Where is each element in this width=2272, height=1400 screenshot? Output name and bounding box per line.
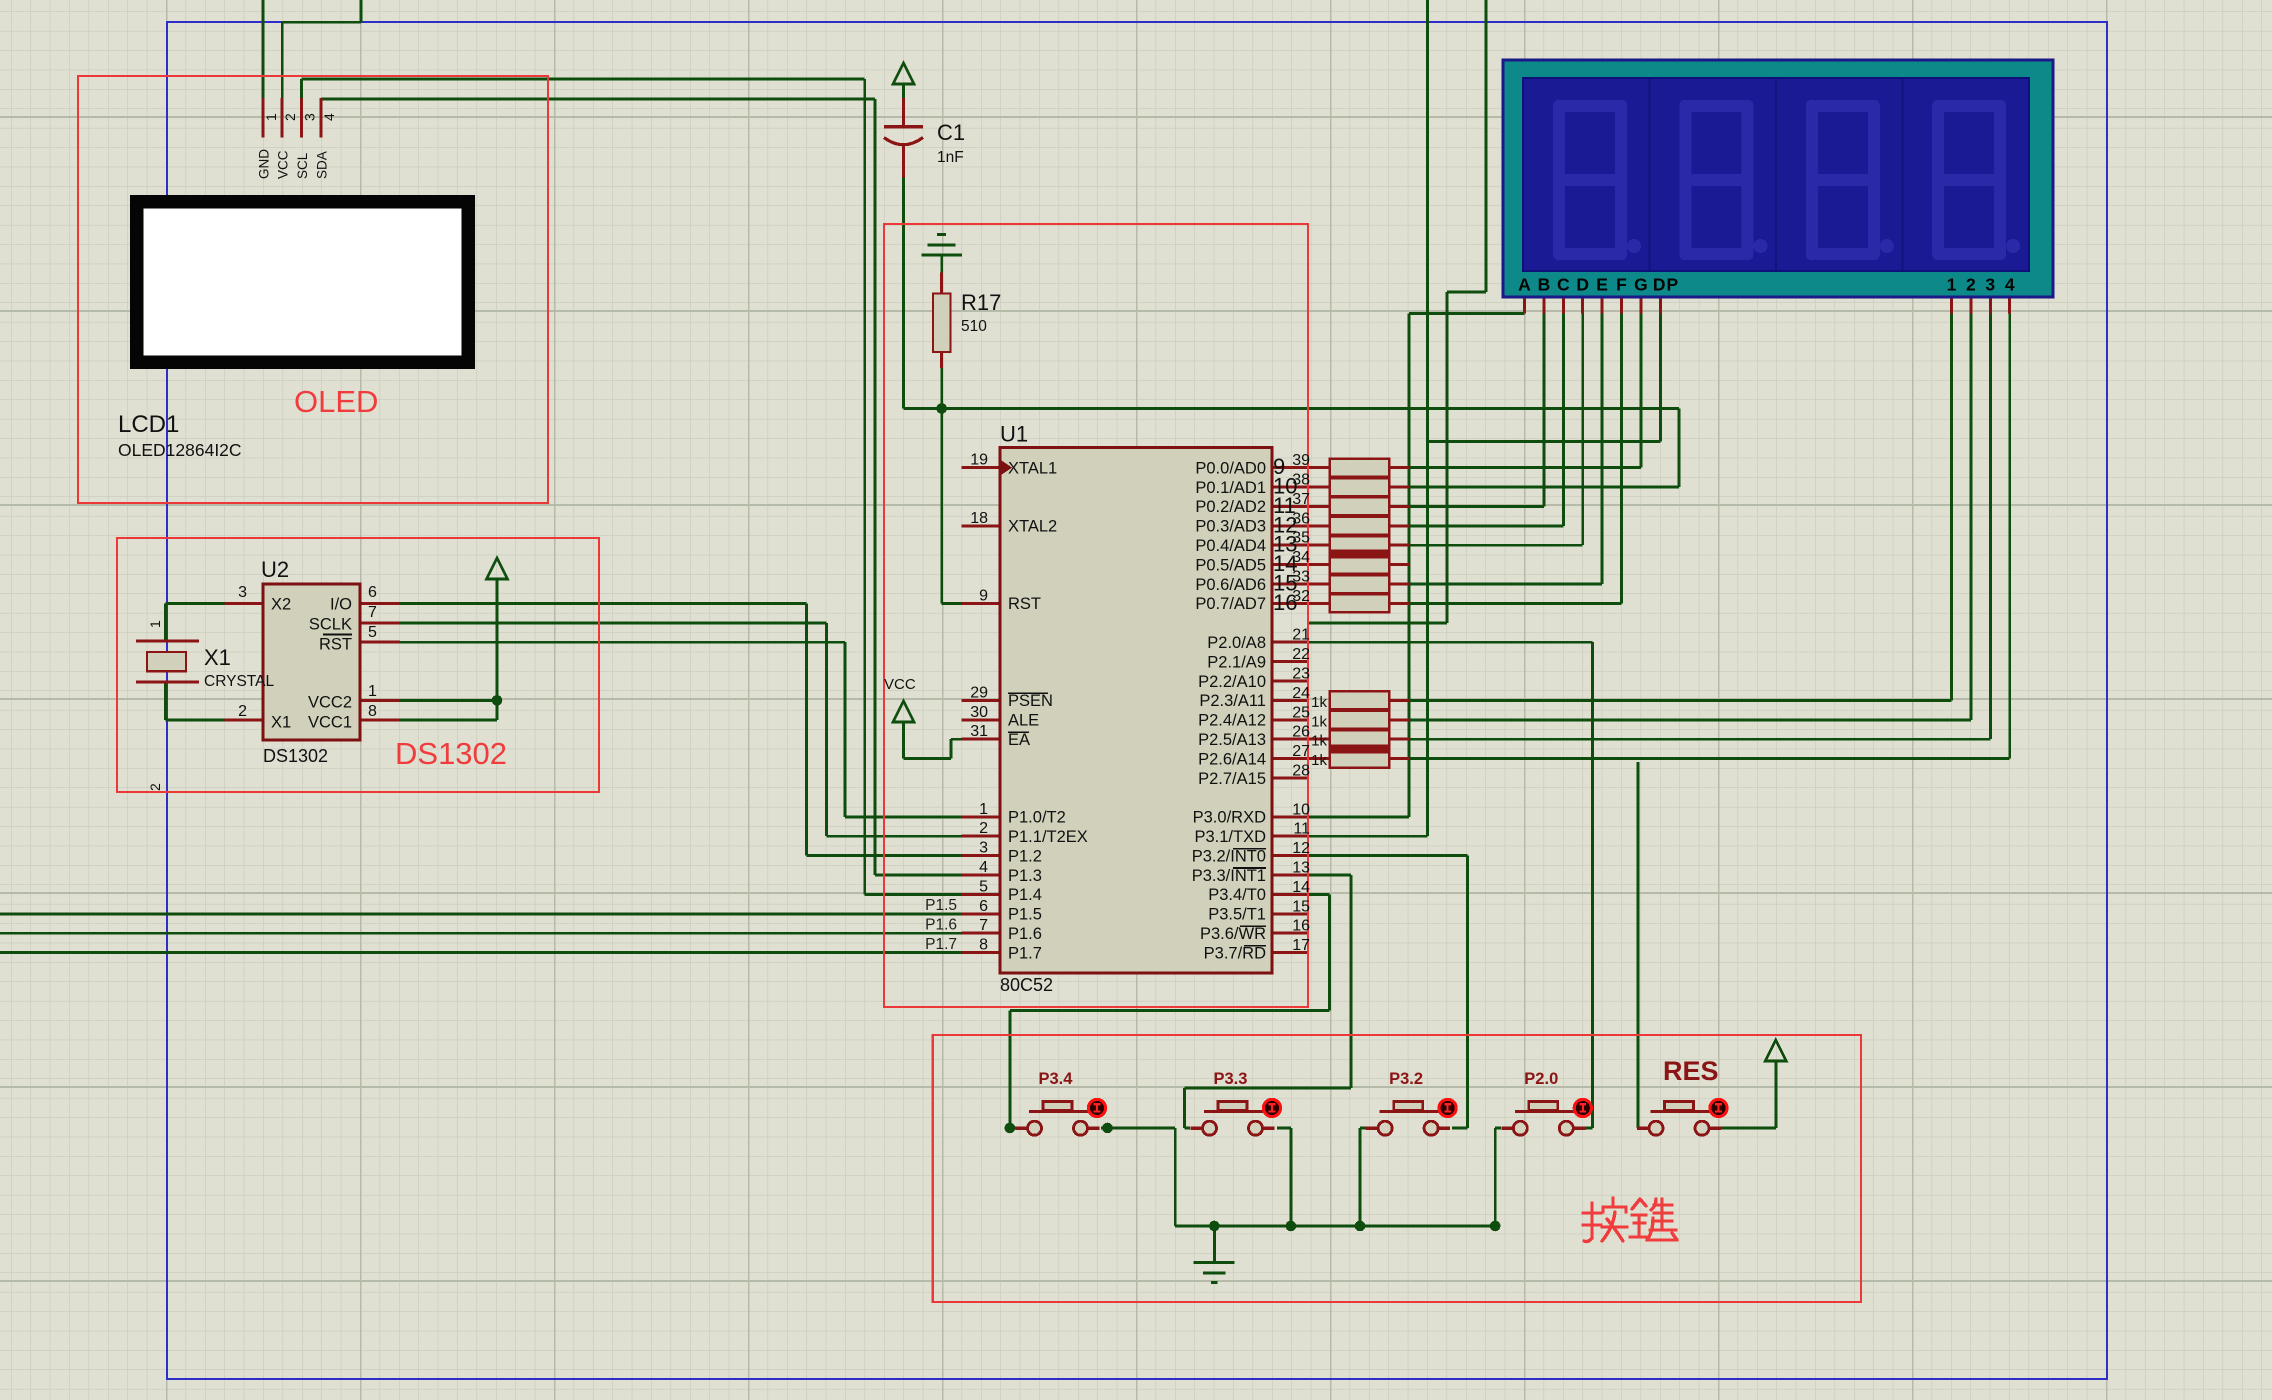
svg-text:3: 3 [979,840,988,857]
svg-text:2: 2 [1966,275,1976,295]
svg-text:P3.3/INT1: P3.3/INT1 [1192,867,1266,885]
svg-text:I/O: I/O [330,596,352,614]
svg-text:RST: RST [319,636,352,654]
svg-text:9: 9 [979,587,988,604]
svg-text:22: 22 [1292,646,1310,663]
svg-text:P3.2: P3.2 [1389,1070,1423,1088]
svg-text:24: 24 [1292,685,1310,702]
svg-text:16: 16 [1273,590,1297,615]
svg-text:CRYSTAL: CRYSTAL [204,673,274,690]
svg-text:31: 31 [970,723,988,740]
svg-text:B: B [1538,275,1551,295]
svg-text:26: 26 [1292,724,1310,741]
svg-text:6: 6 [979,898,988,915]
svg-text:XTAL2: XTAL2 [1008,518,1057,536]
svg-text:P1.7: P1.7 [1008,944,1042,962]
svg-text:3: 3 [1985,275,1995,295]
svg-text:30: 30 [970,704,988,721]
svg-text:P2.5/A13: P2.5/A13 [1198,731,1266,749]
svg-text:DS1302: DS1302 [395,736,507,771]
svg-text:27: 27 [1292,743,1310,760]
svg-text:U2: U2 [261,557,289,582]
svg-text:19: 19 [970,452,988,469]
svg-text:P1.4: P1.4 [1008,886,1042,904]
svg-text:P3.7/RD: P3.7/RD [1204,944,1266,962]
svg-text:25: 25 [1292,704,1310,721]
svg-text:X1: X1 [271,714,291,732]
svg-text:D: D [1576,275,1589,295]
svg-text:11: 11 [1293,821,1310,838]
svg-text:G: G [1634,275,1648,295]
svg-text:P1.5: P1.5 [925,897,957,914]
svg-text:P2.2/A10: P2.2/A10 [1198,673,1266,691]
svg-text:P2.1/A9: P2.1/A9 [1207,653,1266,671]
svg-text:21: 21 [1292,627,1310,644]
svg-text:P3.4: P3.4 [1039,1070,1074,1088]
svg-text:RES: RES [1663,1056,1719,1086]
svg-text:P1.3: P1.3 [1008,867,1042,885]
svg-text:39: 39 [1292,452,1310,469]
svg-text:E: E [1596,275,1608,295]
svg-text:P2.3/A11: P2.3/A11 [1199,692,1266,710]
svg-text:DP: DP [1653,275,1679,295]
svg-text:P1.2: P1.2 [1008,847,1042,865]
svg-text:DS1302: DS1302 [263,746,328,766]
svg-text:F: F [1616,275,1627,295]
svg-text:X1: X1 [204,645,231,670]
svg-text:23: 23 [1292,666,1310,683]
svg-text:P0.3/AD3: P0.3/AD3 [1195,518,1266,536]
svg-text:OLED: OLED [294,384,378,419]
svg-text:P3.0/RXD: P3.0/RXD [1193,809,1266,827]
svg-text:VCC1: VCC1 [308,714,352,732]
svg-text:P0.0/AD0: P0.0/AD0 [1195,459,1266,477]
svg-text:2: 2 [979,820,988,837]
svg-text:1k: 1k [1311,713,1327,730]
svg-text:1: 1 [147,620,163,628]
svg-text:P1.1/T2EX: P1.1/T2EX [1008,828,1088,846]
svg-text:12: 12 [1292,840,1310,857]
svg-text:P1.5: P1.5 [1008,906,1042,924]
svg-text:P3.1/TXD: P3.1/TXD [1194,828,1266,846]
svg-text:VCC2: VCC2 [308,694,352,712]
svg-text:P2.0/A8: P2.0/A8 [1207,634,1266,652]
svg-text:1k: 1k [1311,733,1327,750]
svg-text:LCD1: LCD1 [118,411,179,438]
svg-text:4: 4 [321,113,337,121]
svg-text:A: A [1518,275,1531,295]
svg-text:2: 2 [147,783,163,791]
svg-text:SCLK: SCLK [309,616,352,634]
svg-text:P3.4/T0: P3.4/T0 [1208,886,1266,904]
svg-text:3: 3 [238,584,247,601]
svg-text:28: 28 [1292,763,1310,780]
svg-text:C1: C1 [937,120,965,145]
svg-text:16: 16 [1292,918,1310,935]
svg-text:14: 14 [1292,879,1310,896]
svg-text:4: 4 [979,859,988,876]
svg-text:3: 3 [302,113,318,121]
svg-text:RST: RST [1008,595,1041,613]
svg-text:ALE: ALE [1008,712,1039,730]
svg-text:15: 15 [1292,898,1310,915]
svg-text:29: 29 [970,684,988,701]
svg-text:GND: GND [256,149,271,179]
svg-text:OLED12864I2C: OLED12864I2C [118,440,242,460]
svg-text:18: 18 [970,510,988,527]
svg-text:8: 8 [368,703,377,720]
svg-text:R17: R17 [961,290,1001,315]
svg-text:P0.4/AD4: P0.4/AD4 [1195,537,1266,555]
svg-text:PSEN: PSEN [1008,692,1053,710]
svg-text:P2.0: P2.0 [1524,1070,1558,1088]
svg-text:1: 1 [368,683,377,700]
svg-text:P2.4/A12: P2.4/A12 [1198,712,1266,730]
svg-text:7: 7 [979,917,988,934]
svg-text:6: 6 [368,584,377,601]
svg-text:4: 4 [2005,275,2015,295]
svg-text:U1: U1 [1000,422,1028,447]
svg-text:P3.5/T1: P3.5/T1 [1208,906,1266,924]
svg-text:1: 1 [263,113,279,121]
svg-text:P0.7/AD7: P0.7/AD7 [1195,595,1266,613]
svg-text:EA: EA [1008,731,1030,749]
svg-text:VCC: VCC [884,676,916,693]
svg-text:1nF: 1nF [937,149,964,166]
svg-text:P0.6/AD6: P0.6/AD6 [1195,576,1266,594]
svg-text:P0.2/AD2: P0.2/AD2 [1195,498,1266,516]
svg-text:P2.6/A14: P2.6/A14 [1198,750,1266,768]
svg-text:X2: X2 [271,596,291,614]
svg-text:1k: 1k [1311,694,1327,711]
svg-text:2: 2 [238,703,247,720]
svg-text:8: 8 [979,937,988,954]
svg-text:P1.6: P1.6 [925,917,957,934]
svg-text:C: C [1557,275,1570,295]
svg-text:5: 5 [979,878,988,895]
svg-text:VCC: VCC [276,150,291,179]
svg-text:13: 13 [1292,860,1310,877]
svg-text:P1.7: P1.7 [925,936,957,953]
svg-text:17: 17 [1292,937,1310,954]
svg-text:1: 1 [979,801,988,818]
svg-text:1k: 1k [1311,752,1327,769]
svg-text:P3.6/WR: P3.6/WR [1200,925,1266,943]
svg-text:1: 1 [1947,275,1957,295]
svg-text:10: 10 [1292,801,1310,818]
svg-text:P1.6: P1.6 [1008,925,1042,943]
svg-text:P1.0/T2: P1.0/T2 [1008,809,1066,827]
svg-text:80C52: 80C52 [1000,975,1053,995]
svg-text:2: 2 [282,113,298,121]
svg-text:P0.1/AD1: P0.1/AD1 [1195,479,1266,497]
svg-text:5: 5 [368,624,377,641]
svg-text:P2.7/A15: P2.7/A15 [1198,770,1266,788]
svg-text:P0.5/AD5: P0.5/AD5 [1195,556,1266,574]
svg-text:P3.2/INT0: P3.2/INT0 [1192,847,1266,865]
svg-text:P3.3: P3.3 [1214,1070,1248,1088]
svg-text:SCL: SCL [295,152,310,179]
svg-text:XTAL1: XTAL1 [1008,459,1057,477]
svg-text:510: 510 [961,318,987,335]
svg-text:7: 7 [368,604,377,621]
svg-text:SDA: SDA [315,151,330,179]
